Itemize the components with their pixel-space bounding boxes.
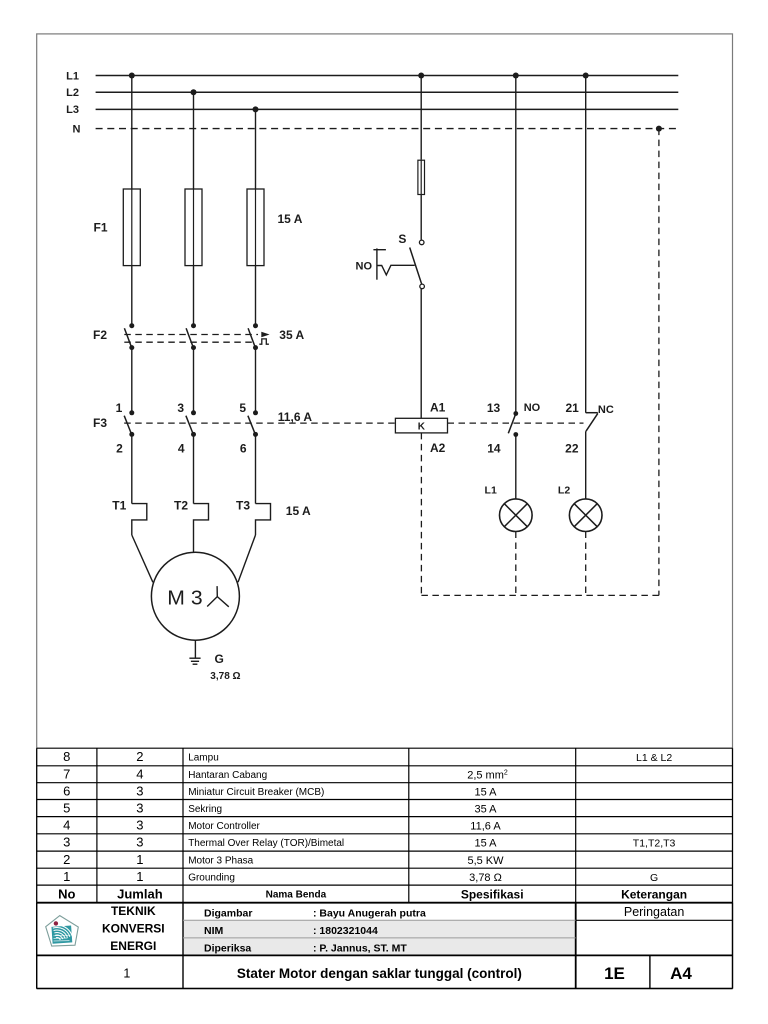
pin label 13 bbox=[487, 401, 501, 415]
switch S (single-pole, NO with detent actuator) bbox=[410, 240, 425, 289]
svg-text:5: 5 bbox=[239, 401, 246, 415]
wire phase 3: rail to fuse bbox=[255, 109, 257, 189]
label L2 (lamp) bbox=[558, 484, 570, 496]
svg-text:F3: F3 bbox=[93, 416, 107, 430]
wire phase 1: F3 to overload relay bbox=[131, 434, 133, 503]
label S bbox=[398, 232, 406, 246]
department name TEKNIK KONVERSI ENERGI bbox=[102, 904, 165, 953]
svg-text:L1: L1 bbox=[485, 484, 497, 496]
label 15 A (fuses F1) bbox=[278, 212, 303, 226]
label NO (contact) bbox=[524, 402, 541, 414]
svg-text:Jumlah: Jumlah bbox=[117, 886, 163, 901]
svg-text:14: 14 bbox=[487, 441, 501, 455]
pin label 14 bbox=[487, 441, 501, 455]
wire contact 14 to lamp L1 bbox=[515, 435, 517, 499]
svg-text:15 A: 15 A bbox=[474, 838, 497, 850]
wire phase 1: F2 to F3 bbox=[131, 348, 133, 413]
pin label 1 bbox=[116, 401, 123, 415]
svg-text:35 A: 35 A bbox=[279, 328, 304, 342]
title block borders bbox=[37, 903, 733, 989]
svg-text:4: 4 bbox=[63, 818, 70, 833]
svg-text:5: 5 bbox=[63, 800, 70, 815]
svg-text:6: 6 bbox=[63, 784, 70, 799]
contactor F3 pole 1 contact (pins 1-2) bbox=[124, 410, 134, 437]
svg-text:A2: A2 bbox=[430, 441, 446, 455]
svg-text:3,78 Ω: 3,78 Ω bbox=[210, 671, 240, 682]
svg-text:2: 2 bbox=[116, 441, 123, 455]
dashed bottom return wire bbox=[421, 594, 659, 596]
svg-text:L2: L2 bbox=[558, 484, 570, 496]
junction node L3/phase-C bbox=[253, 106, 259, 112]
pin label 22 bbox=[565, 441, 579, 455]
sheet number 1 bbox=[123, 967, 130, 981]
svg-text:3: 3 bbox=[136, 818, 143, 833]
dashed wire lamp L1 to bottom return bbox=[515, 532, 517, 596]
auxiliary contact 21-22 (NC) bbox=[586, 413, 598, 432]
svg-text:Spesifikasi: Spesifikasi bbox=[461, 887, 524, 901]
thermal overload relay T3 bbox=[256, 504, 271, 535]
motor label M 3 bbox=[167, 588, 202, 610]
junction node N/return branch bbox=[656, 126, 662, 132]
control circuit fuse bbox=[418, 160, 425, 194]
svg-text:2,5 mm2: 2,5 mm2 bbox=[467, 770, 508, 782]
svg-text:1E: 1E bbox=[604, 964, 625, 983]
svg-text:Keterangan: Keterangan bbox=[621, 887, 687, 901]
svg-text:4: 4 bbox=[178, 441, 185, 455]
svg-text:T1: T1 bbox=[112, 498, 126, 512]
label T2 bbox=[174, 498, 188, 512]
label Peringatan bbox=[624, 905, 685, 919]
svg-text:Lampu: Lampu bbox=[188, 753, 219, 764]
junction node L1/control branch S bbox=[418, 73, 424, 79]
label A1 bbox=[430, 400, 446, 414]
svg-text:F1: F1 bbox=[93, 220, 107, 234]
svg-text:15 A: 15 A bbox=[474, 787, 497, 799]
wire phase 3: F3 to overload relay bbox=[255, 434, 257, 503]
svg-text:Nama Benda: Nama Benda bbox=[266, 889, 327, 900]
svg-text:G: G bbox=[650, 872, 658, 884]
pin label 21 bbox=[565, 401, 579, 415]
svg-text:4: 4 bbox=[136, 767, 143, 782]
lamp L2 bbox=[569, 499, 602, 532]
svg-text:ENERGI: ENERGI bbox=[110, 939, 156, 953]
svg-text:21: 21 bbox=[565, 401, 579, 415]
svg-text:KONVERSI: KONVERSI bbox=[102, 921, 165, 935]
svg-text:3: 3 bbox=[136, 800, 143, 815]
label 3,78 ohm bbox=[210, 671, 240, 682]
dashed wire below coil K bbox=[420, 433, 422, 596]
svg-text:6: 6 bbox=[240, 441, 247, 455]
motor star (Y) symbol bbox=[207, 586, 229, 607]
wire phase 2: fuse to breaker F2 bbox=[193, 266, 195, 326]
contactor F3 pole 2 contact (pins 3-4) bbox=[186, 410, 196, 437]
breaker F2 pole 3 contact bbox=[248, 323, 258, 350]
svg-text:M 3: M 3 bbox=[167, 588, 202, 610]
svg-text:Sekring: Sekring bbox=[188, 804, 222, 815]
svg-text:2: 2 bbox=[136, 749, 143, 764]
svg-text:5,5 KW: 5,5 KW bbox=[467, 855, 504, 867]
svg-text:K: K bbox=[418, 422, 426, 433]
institution logo bbox=[46, 916, 79, 947]
svg-text:No: No bbox=[58, 886, 75, 901]
svg-text:Motor Controller: Motor Controller bbox=[188, 821, 260, 832]
svg-text:7: 7 bbox=[63, 767, 70, 782]
power rail L2 bbox=[66, 87, 678, 99]
wire phase 3: fuse to breaker F2 bbox=[255, 266, 257, 326]
label L1 (lamp) bbox=[485, 484, 497, 496]
dashed wire lamp L2 to bottom return bbox=[585, 532, 587, 596]
svg-text:L1: L1 bbox=[66, 70, 79, 82]
svg-text:35 A: 35 A bbox=[474, 803, 497, 815]
pin label 4 bbox=[178, 441, 185, 455]
svg-text:22: 22 bbox=[565, 441, 579, 455]
wire L1 to control fuse bbox=[420, 76, 422, 160]
svg-text:Diperiksa: Diperiksa bbox=[204, 943, 251, 955]
power rail L1 bbox=[66, 70, 678, 82]
pin label 6 bbox=[240, 441, 247, 455]
svg-text:1: 1 bbox=[136, 852, 143, 867]
svg-text:NIM: NIM bbox=[204, 925, 224, 937]
ground symbol bbox=[189, 658, 200, 664]
pin label 3 bbox=[177, 401, 184, 415]
breaker F2 trip arrow bbox=[261, 332, 269, 338]
pin label 2 bbox=[116, 441, 123, 455]
drawing title bbox=[237, 966, 522, 981]
svg-text:15 A: 15 A bbox=[286, 504, 311, 518]
svg-text:F2: F2 bbox=[93, 328, 107, 342]
wire T2 to motor bbox=[193, 535, 195, 552]
breaker F2 pole 2 contact bbox=[186, 323, 196, 350]
wire phase 3: F2 to F3 bbox=[255, 348, 257, 413]
svg-text:NO: NO bbox=[524, 402, 541, 414]
svg-text:Motor 3 Phasa: Motor 3 Phasa bbox=[188, 855, 253, 866]
svg-text:1: 1 bbox=[136, 869, 143, 884]
junction node L1/phase-A bbox=[129, 73, 135, 79]
fuse F1 pole 2 bbox=[185, 189, 202, 266]
svg-text:S: S bbox=[398, 232, 406, 246]
svg-text:2: 2 bbox=[63, 852, 70, 867]
paper size A4 bbox=[670, 964, 692, 983]
svg-text:15 A: 15 A bbox=[278, 212, 303, 226]
svg-text:NC: NC bbox=[598, 404, 614, 416]
wire L1 to contact 21 bbox=[585, 76, 587, 413]
parts table row texts bbox=[63, 749, 675, 884]
svg-text:T1,T2,T3: T1,T2,T3 bbox=[633, 838, 676, 850]
label T3 bbox=[236, 498, 250, 512]
label 15 A (TOR) bbox=[286, 504, 311, 518]
svg-text:8: 8 bbox=[63, 749, 70, 764]
wire contact 22 to lamp L2 bbox=[585, 431, 587, 499]
switch S actuator (manual detent) bbox=[373, 248, 414, 279]
label NC (contact) bbox=[598, 404, 614, 416]
svg-text:3: 3 bbox=[177, 401, 184, 415]
thermal overload relay T2 bbox=[194, 504, 209, 535]
title block info rows bbox=[204, 907, 426, 954]
svg-text:T3: T3 bbox=[236, 498, 250, 512]
pin label 5 bbox=[239, 401, 246, 415]
svg-text:11,6 A: 11,6 A bbox=[278, 410, 313, 424]
junction node L1/contact-13 branch bbox=[513, 73, 519, 79]
junction node L2/phase-B bbox=[191, 89, 197, 95]
label F2 bbox=[93, 328, 107, 342]
svg-text:: Bayu Anugerah putra: : Bayu Anugerah putra bbox=[313, 907, 426, 919]
svg-text:A1: A1 bbox=[430, 400, 446, 414]
linkage dashed line coil K to contacts bbox=[448, 422, 584, 424]
svg-text:L2: L2 bbox=[66, 87, 79, 99]
wire T3 to motor bbox=[238, 535, 256, 582]
svg-text:3: 3 bbox=[136, 835, 143, 850]
label T1 bbox=[112, 498, 126, 512]
svg-text:3: 3 bbox=[136, 784, 143, 799]
svg-text:N: N bbox=[73, 123, 81, 135]
breaker F2 pole 1 contact bbox=[124, 323, 134, 350]
dashed return wire to N bbox=[658, 129, 660, 596]
label 11,6 A bbox=[278, 410, 313, 424]
sheet code 1E bbox=[604, 964, 625, 983]
svg-text:Digambar: Digambar bbox=[204, 907, 252, 919]
svg-text:NO: NO bbox=[356, 260, 373, 272]
power rail L3 bbox=[66, 104, 678, 116]
label A2 bbox=[430, 441, 446, 455]
svg-text:A4: A4 bbox=[670, 964, 692, 983]
svg-text:Stater Motor dengan saklar tun: Stater Motor dengan saklar tunggal (cont… bbox=[237, 966, 522, 981]
label F3 bbox=[93, 416, 107, 430]
svg-text:L3: L3 bbox=[66, 104, 79, 116]
svg-text:L1 & L2: L1 & L2 bbox=[636, 752, 672, 764]
fuse F1 pole 3 bbox=[247, 189, 264, 266]
contactor coil K bbox=[395, 418, 447, 433]
label NO (switch) bbox=[356, 260, 373, 272]
label 35 A bbox=[279, 328, 304, 342]
svg-text:3: 3 bbox=[63, 835, 70, 850]
label F1 bbox=[93, 220, 107, 234]
wire fuse to switch S bbox=[420, 195, 422, 241]
svg-text:G: G bbox=[215, 652, 224, 666]
junction node L1/contact-21 branch bbox=[583, 73, 589, 79]
wire phase 2: rail to fuse bbox=[193, 92, 195, 189]
svg-text:T2: T2 bbox=[174, 498, 188, 512]
wire phase 1: rail to fuse bbox=[131, 76, 133, 190]
svg-text:1: 1 bbox=[63, 869, 70, 884]
svg-text:1: 1 bbox=[116, 401, 123, 415]
wire T1 to motor bbox=[132, 535, 153, 582]
svg-text:13: 13 bbox=[487, 401, 501, 415]
neutral rail N (dashed) bbox=[73, 123, 677, 135]
wire L1 to contact 13 bbox=[515, 76, 517, 414]
svg-text:3,78 Ω: 3,78 Ω bbox=[469, 872, 502, 884]
parts list table bbox=[37, 748, 733, 955]
breaker F2 thermal element symbol bbox=[259, 339, 269, 344]
svg-text:Thermal Over Relay (TOR)/Bimet: Thermal Over Relay (TOR)/Bimetal bbox=[188, 838, 344, 849]
thermal overload relay T1 bbox=[132, 504, 147, 535]
svg-text:Miniatur Circuit Breaker (MCB): Miniatur Circuit Breaker (MCB) bbox=[188, 787, 324, 798]
svg-text:Hantaran Cabang: Hantaran Cabang bbox=[188, 770, 267, 781]
svg-text:: P. Jannus, ST. MT: : P. Jannus, ST. MT bbox=[313, 943, 407, 955]
breaker F2 linkage dashed lines bbox=[124, 335, 258, 343]
label G bbox=[215, 652, 224, 666]
auxiliary contact 13-14 (NO) bbox=[508, 411, 518, 437]
svg-text:TEKNIK: TEKNIK bbox=[111, 904, 156, 918]
svg-text:Grounding: Grounding bbox=[188, 873, 235, 884]
parts table header row bbox=[58, 886, 687, 901]
contactor F3 pole 3 contact (pins 5-6) bbox=[248, 410, 258, 437]
svg-text:Peringatan: Peringatan bbox=[624, 905, 685, 919]
motor M 3-phase circle bbox=[151, 552, 239, 640]
wire switch to coil K bbox=[420, 289, 422, 418]
wire phase 2: F3 to overload relay bbox=[193, 434, 195, 503]
contactor F3 linkage dashed line (left of coil) bbox=[124, 422, 395, 424]
wire phase 1: fuse to breaker F2 bbox=[131, 266, 133, 326]
svg-text:1: 1 bbox=[123, 967, 130, 981]
lamp L1 bbox=[500, 499, 533, 532]
svg-text:11,6 A: 11,6 A bbox=[470, 821, 501, 833]
fuse F1 pole 1 bbox=[123, 189, 140, 266]
wire phase 2: F2 to F3 bbox=[193, 348, 195, 413]
svg-text:: 1802321044: : 1802321044 bbox=[313, 925, 378, 937]
wire motor to ground bbox=[194, 640, 196, 658]
